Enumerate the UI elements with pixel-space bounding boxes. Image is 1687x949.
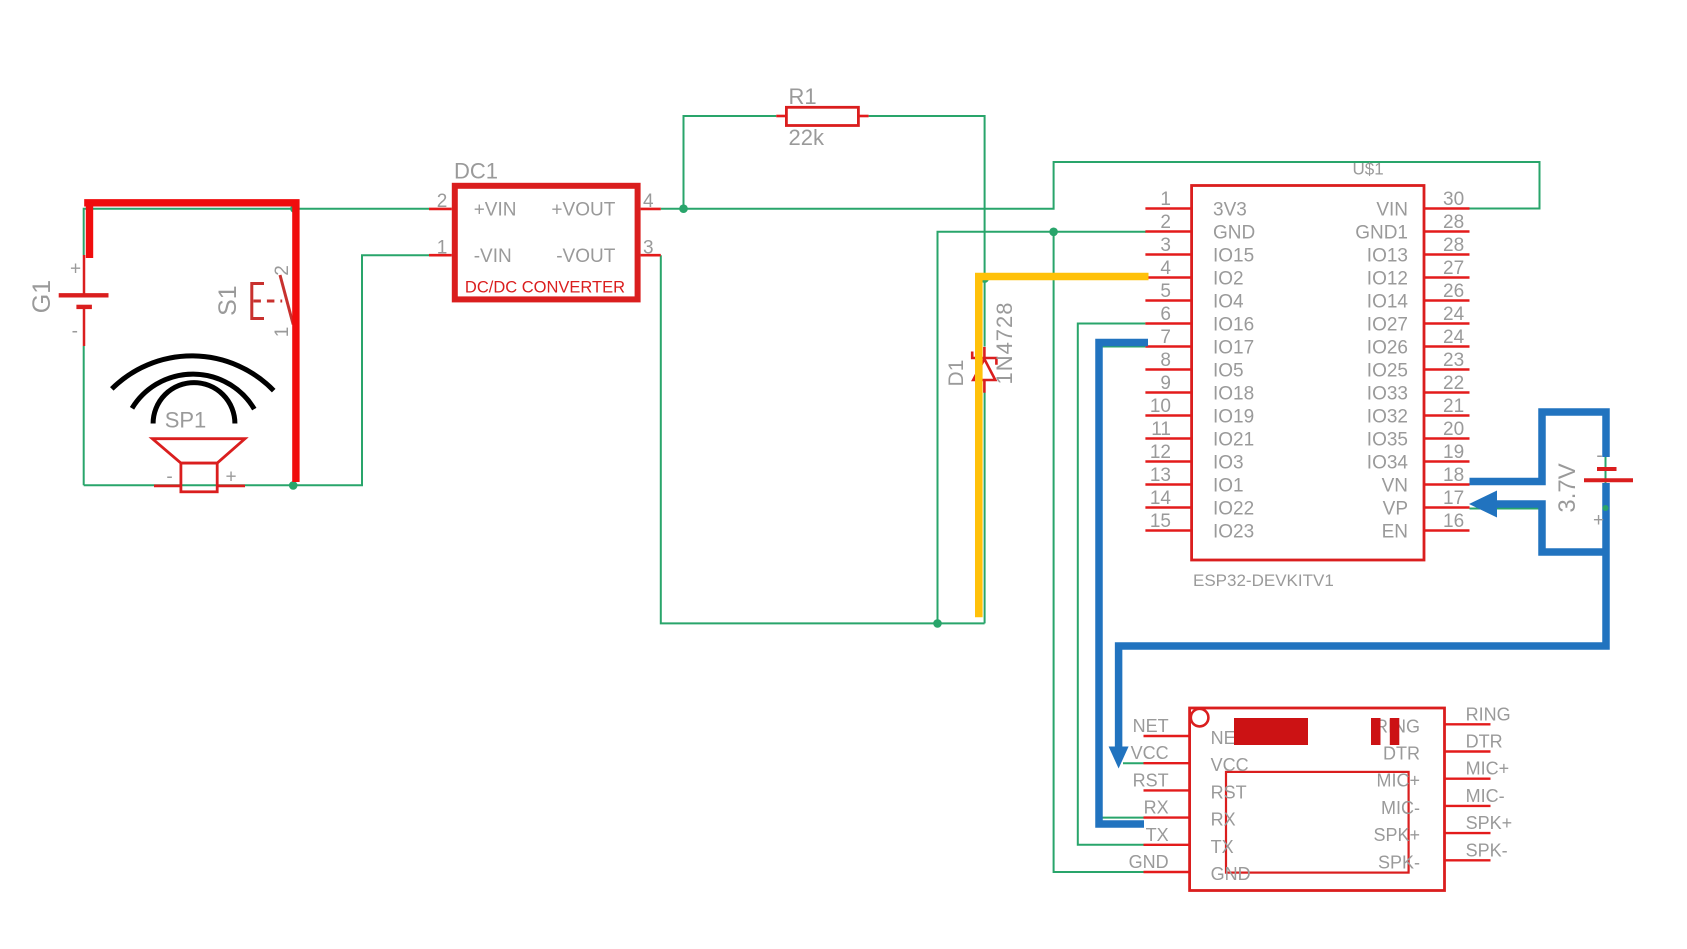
svg-text:18: 18 bbox=[1443, 465, 1464, 486]
svg-text:11: 11 bbox=[1151, 419, 1171, 440]
svg-text:+: + bbox=[225, 467, 236, 488]
svg-text:22: 22 bbox=[1443, 373, 1464, 394]
pin 28 IO13 bbox=[1367, 235, 1470, 267]
svg-text:3.7V: 3.7V bbox=[1554, 463, 1581, 512]
pin 13 IO1 bbox=[1145, 465, 1243, 497]
pin 12 IO3 bbox=[1145, 442, 1243, 474]
pin 21 IO32 bbox=[1367, 396, 1470, 428]
svg-text:U$1: U$1 bbox=[1353, 160, 1384, 179]
svg-text:GND1: GND1 bbox=[1355, 223, 1408, 244]
svg-text:2: 2 bbox=[1160, 212, 1171, 233]
svg-text:22k: 22k bbox=[789, 125, 825, 150]
svg-text:-: - bbox=[1596, 445, 1602, 466]
svg-text:TX: TX bbox=[1146, 825, 1169, 845]
pin 3 stub bbox=[641, 254, 661, 257]
svg-text:-VIN: -VIN bbox=[474, 246, 512, 267]
pin 2 GND bbox=[1145, 212, 1255, 244]
overlay wire yellow bbox=[979, 277, 1149, 618]
pin 11 IO21 bbox=[1145, 419, 1254, 451]
wire VCC sliver bbox=[1123, 762, 1144, 764]
svg-text:IO34: IO34 bbox=[1367, 453, 1409, 474]
battery 3.7V bbox=[1554, 445, 1633, 531]
DC/DC converter DC1 bbox=[429, 159, 661, 300]
svg-text:14: 14 bbox=[1150, 488, 1172, 509]
svg-text:IO21: IO21 bbox=[1213, 430, 1254, 451]
svg-text:17: 17 bbox=[1443, 488, 1464, 509]
module pin SPK+ bbox=[1373, 813, 1512, 845]
svg-text:IO32: IO32 bbox=[1367, 407, 1408, 428]
wire IO2 horizontal under yellow bbox=[985, 278, 1148, 280]
zener diode D1 bbox=[945, 301, 1017, 392]
pin 3 IO15 bbox=[1145, 235, 1254, 267]
svg-text:1: 1 bbox=[1160, 189, 1171, 210]
node pin4/R1 junction bbox=[679, 204, 688, 213]
svg-text:RING: RING bbox=[1466, 704, 1511, 724]
pin 28 GND1 bbox=[1355, 212, 1469, 244]
svg-text:VN: VN bbox=[1382, 476, 1408, 497]
node -VOUT/GND junction bbox=[933, 619, 942, 628]
svg-text:NET: NET bbox=[1133, 716, 1169, 736]
wire VP sliver bbox=[1470, 508, 1544, 510]
svg-text:1: 1 bbox=[437, 237, 448, 258]
svg-text:ESP32-DEVKITV1: ESP32-DEVKITV1 bbox=[1193, 571, 1334, 590]
SIM800L module bbox=[1129, 704, 1513, 890]
svg-text:IO16: IO16 bbox=[1213, 315, 1254, 336]
svg-text:IO15: IO15 bbox=[1213, 246, 1254, 267]
wire battery 3.7V lead bbox=[1605, 452, 1607, 508]
pin 24 IO27 bbox=[1367, 304, 1470, 336]
sound wave arcs bbox=[112, 356, 274, 424]
svg-text:13: 13 bbox=[1150, 465, 1171, 486]
svg-text:9: 9 bbox=[1160, 373, 1171, 394]
module graphic bbox=[1234, 718, 1308, 745]
svg-text:3V3: 3V3 bbox=[1213, 200, 1247, 221]
svg-text:20: 20 bbox=[1443, 419, 1464, 440]
svg-text:4: 4 bbox=[1160, 258, 1171, 279]
svg-text:IO19: IO19 bbox=[1213, 407, 1254, 428]
pin 5 IO4 bbox=[1145, 281, 1244, 313]
resistor R1 bbox=[776, 84, 868, 150]
svg-text:+VIN: +VIN bbox=[474, 200, 517, 221]
overlay wire blue VN to battery bbox=[1470, 412, 1607, 482]
pin 6 IO16 bbox=[1145, 304, 1254, 336]
svg-text:RX: RX bbox=[1211, 810, 1236, 830]
module pin MIC- bbox=[1381, 786, 1505, 818]
svg-text:GND: GND bbox=[1129, 852, 1169, 872]
svg-text:DTR: DTR bbox=[1466, 732, 1503, 752]
svg-text:IO3: IO3 bbox=[1213, 453, 1244, 474]
svg-text:IO22: IO22 bbox=[1213, 499, 1254, 520]
overlay wire blue IO17 to RX bbox=[1099, 343, 1148, 825]
svg-text:MIC-: MIC- bbox=[1466, 786, 1505, 806]
overlay wire blue battery+ to VP arrow bbox=[1495, 504, 1606, 552]
svg-text:EN: EN bbox=[1382, 522, 1408, 543]
svg-text:28: 28 bbox=[1443, 212, 1464, 233]
svg-text:+: + bbox=[1593, 510, 1604, 531]
battery G1 bbox=[28, 255, 109, 346]
svg-text:7: 7 bbox=[1160, 327, 1171, 348]
switch S1 bbox=[214, 265, 293, 337]
svg-text:12: 12 bbox=[1150, 442, 1171, 463]
svg-text:GND: GND bbox=[1213, 223, 1255, 244]
wire GND pin2 left and down bbox=[938, 232, 1147, 624]
pin 7 IO17 bbox=[1145, 327, 1254, 359]
svg-text:IO12: IO12 bbox=[1367, 269, 1408, 290]
svg-text:VCC: VCC bbox=[1211, 755, 1249, 775]
pin 14 IO22 bbox=[1145, 488, 1254, 520]
overlay wire red bbox=[84, 203, 296, 482]
svg-text:IO2: IO2 bbox=[1213, 269, 1244, 290]
svg-text:5: 5 bbox=[1160, 281, 1171, 302]
overlay wire blue battery+ to VCC arrow bbox=[1119, 483, 1606, 748]
svg-text:IO14: IO14 bbox=[1367, 292, 1409, 313]
svg-text:3: 3 bbox=[643, 237, 654, 258]
svg-text:26: 26 bbox=[1443, 281, 1464, 302]
svg-text:VP: VP bbox=[1383, 499, 1408, 520]
module pin TX bbox=[1144, 825, 1234, 857]
svg-text:30: 30 bbox=[1443, 189, 1464, 210]
svg-text:6: 6 bbox=[1160, 304, 1171, 325]
pin 17 VP bbox=[1383, 488, 1470, 520]
arrowhead left at VP bbox=[1469, 491, 1497, 518]
svg-text:-: - bbox=[72, 321, 78, 342]
svg-text:2: 2 bbox=[272, 265, 293, 276]
svg-text:15: 15 bbox=[1150, 511, 1171, 532]
module pin SPK- bbox=[1378, 840, 1508, 872]
svg-text:SPK-: SPK- bbox=[1466, 840, 1508, 860]
pin 9 IO18 bbox=[1145, 373, 1254, 405]
pin 15 IO23 bbox=[1145, 511, 1254, 543]
wire battery+ to DC1 +VIN bbox=[84, 209, 429, 255]
svg-text:IO18: IO18 bbox=[1213, 384, 1254, 405]
node GND T junction bbox=[1049, 228, 1058, 237]
pin 27 IO12 bbox=[1367, 258, 1470, 290]
pin 24 IO26 bbox=[1367, 327, 1470, 359]
module pin RST bbox=[1133, 770, 1247, 802]
pin 18 VN bbox=[1382, 465, 1470, 497]
wire R1 right down to IO2 net bbox=[869, 116, 985, 347]
svg-text:24: 24 bbox=[1443, 327, 1465, 348]
svg-text:D1: D1 bbox=[945, 360, 968, 387]
wire -VOUT down and right bbox=[661, 255, 985, 623]
svg-text:IO26: IO26 bbox=[1367, 338, 1408, 359]
wire bottom to -VIN bbox=[84, 255, 430, 485]
wire +VOUT to VIN corner bbox=[661, 162, 1540, 209]
svg-text:19: 19 bbox=[1443, 442, 1464, 463]
svg-text:G1: G1 bbox=[28, 280, 56, 313]
svg-text:3: 3 bbox=[1160, 235, 1171, 256]
svg-text:1: 1 bbox=[272, 327, 293, 338]
svg-text:SPK+: SPK+ bbox=[1466, 813, 1513, 833]
junction dots bbox=[289, 204, 1058, 627]
svg-text:MIC-: MIC- bbox=[1381, 798, 1420, 818]
speaker SP1 bbox=[112, 356, 274, 492]
svg-text:-VOUT: -VOUT bbox=[556, 246, 616, 267]
svg-text:23: 23 bbox=[1443, 350, 1464, 371]
svg-text:IO1: IO1 bbox=[1213, 476, 1244, 497]
svg-text:4: 4 bbox=[643, 191, 654, 212]
wire GND vertical to module bbox=[1054, 232, 1144, 872]
svg-text:IO35: IO35 bbox=[1367, 430, 1408, 451]
svg-text:SPK-: SPK- bbox=[1378, 852, 1420, 872]
svg-text:S1: S1 bbox=[214, 285, 242, 316]
svg-text:GND: GND bbox=[1211, 864, 1251, 884]
pin 20 IO35 bbox=[1367, 419, 1470, 451]
wire IO16 to TX bbox=[1078, 324, 1146, 845]
svg-text:16: 16 bbox=[1443, 511, 1464, 532]
pin 22 IO33 bbox=[1367, 373, 1470, 405]
wire battery- down bbox=[83, 346, 85, 485]
svg-text:-: - bbox=[166, 467, 172, 488]
pin 19 IO34 bbox=[1367, 442, 1470, 474]
svg-text:IO33: IO33 bbox=[1367, 384, 1408, 405]
pin 1 3V3 bbox=[1145, 189, 1246, 221]
svg-text:RX: RX bbox=[1144, 798, 1169, 818]
svg-text:IO4: IO4 bbox=[1213, 292, 1244, 313]
pin 4 IO2 bbox=[1145, 258, 1243, 290]
pin 16 EN bbox=[1382, 511, 1470, 543]
svg-text:+: + bbox=[70, 259, 81, 280]
svg-text:IO27: IO27 bbox=[1367, 315, 1408, 336]
svg-text:21: 21 bbox=[1443, 396, 1464, 417]
svg-text:24: 24 bbox=[1443, 304, 1465, 325]
module pin MIC+ bbox=[1376, 759, 1509, 791]
svg-text:IO13: IO13 bbox=[1367, 246, 1408, 267]
svg-text:1N4728: 1N4728 bbox=[992, 301, 1017, 384]
GREEN NETS bbox=[84, 116, 1606, 872]
node speaker+ junction bbox=[289, 481, 298, 490]
pin 1 stub bbox=[429, 254, 452, 257]
svg-text:VCC: VCC bbox=[1131, 743, 1169, 763]
svg-text:DC/DC CONVERTER: DC/DC CONVERTER bbox=[465, 279, 625, 297]
svg-text:SP1: SP1 bbox=[165, 408, 207, 433]
module pin RX bbox=[1144, 798, 1236, 830]
pin 23 IO25 bbox=[1367, 350, 1470, 382]
svg-text:MIC+: MIC+ bbox=[1376, 771, 1420, 791]
wire junction to R1 left bbox=[684, 116, 777, 209]
svg-text:IO25: IO25 bbox=[1367, 361, 1408, 382]
module pin DTR bbox=[1383, 732, 1503, 764]
pin 10 IO19 bbox=[1145, 396, 1254, 428]
pin 2 stub bbox=[429, 208, 452, 211]
module pin RING bbox=[1375, 704, 1511, 736]
svg-text:RST: RST bbox=[1133, 770, 1169, 790]
svg-text:10: 10 bbox=[1150, 396, 1171, 417]
svg-text:IO17: IO17 bbox=[1213, 338, 1254, 359]
node R1/IO2 T junction bbox=[980, 274, 989, 283]
svg-text:DC1: DC1 bbox=[454, 159, 498, 184]
module pin NET bbox=[1133, 716, 1247, 748]
wire IO17 to RX under blue bbox=[1102, 347, 1146, 818]
module pin VCC bbox=[1131, 743, 1249, 775]
svg-text:2: 2 bbox=[437, 191, 448, 212]
svg-text:8: 8 bbox=[1160, 350, 1171, 371]
svg-text:IO23: IO23 bbox=[1213, 522, 1254, 543]
pin 26 IO14 bbox=[1367, 281, 1470, 313]
pin 30 VIN bbox=[1376, 189, 1469, 221]
wire zener bottom to gnd line bbox=[984, 393, 986, 624]
svg-text:TX: TX bbox=[1211, 837, 1234, 857]
svg-text:R1: R1 bbox=[789, 84, 817, 109]
node battery plus dot bbox=[1603, 505, 1609, 511]
module SIM holder outline bbox=[1226, 772, 1409, 873]
svg-text:27: 27 bbox=[1443, 258, 1464, 279]
svg-text:28: 28 bbox=[1443, 235, 1464, 256]
svg-text:VIN: VIN bbox=[1376, 200, 1408, 221]
svg-text:+VOUT: +VOUT bbox=[551, 200, 615, 221]
module pin GND bbox=[1129, 852, 1251, 884]
svg-text:SPK+: SPK+ bbox=[1373, 825, 1420, 845]
node switch top junction bbox=[290, 204, 299, 213]
svg-text:RST: RST bbox=[1211, 782, 1247, 802]
svg-text:MIC+: MIC+ bbox=[1466, 759, 1510, 779]
svg-text:IO5: IO5 bbox=[1213, 361, 1244, 382]
pin 4 stub bbox=[641, 208, 661, 211]
pin 8 IO5 bbox=[1145, 350, 1243, 382]
svg-text:DTR: DTR bbox=[1383, 744, 1420, 764]
arrowhead down at VCC bbox=[1109, 747, 1129, 769]
ESP32 U$1 bbox=[1145, 160, 1469, 591]
